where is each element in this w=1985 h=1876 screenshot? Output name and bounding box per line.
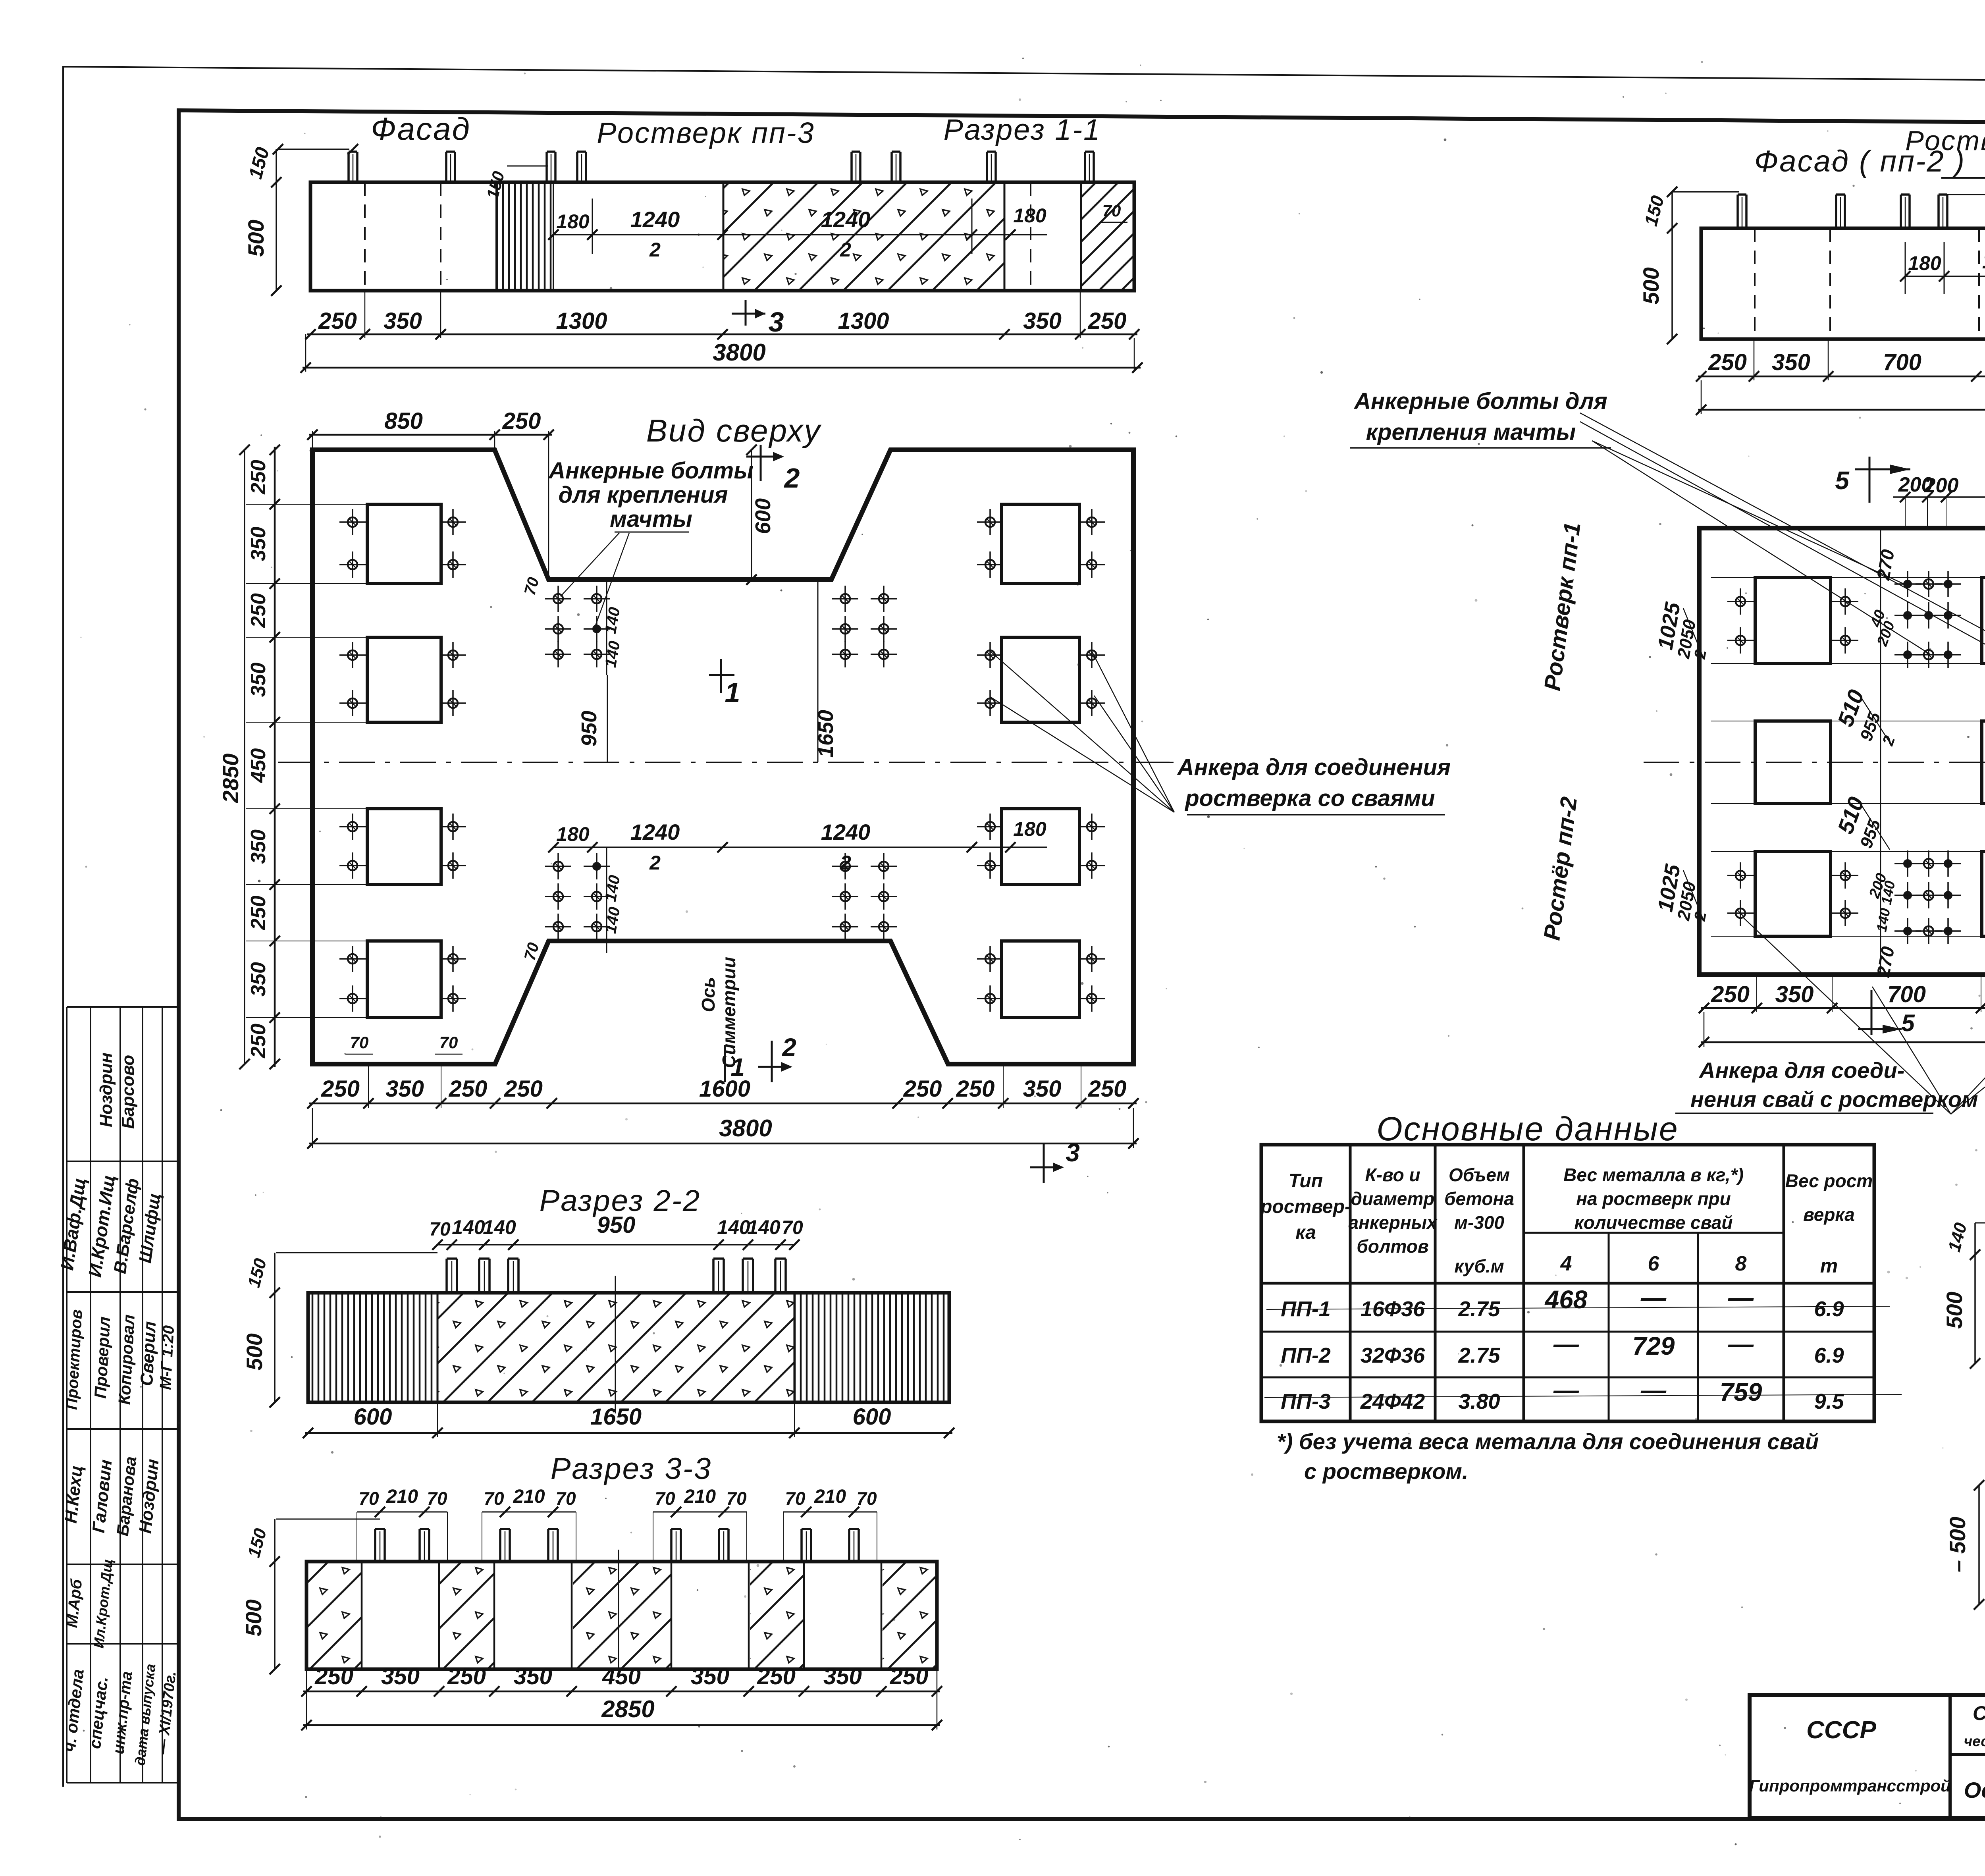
facade bottom dim chain — [307, 334, 1137, 335]
svg-text:Вес рост: Вес рост — [1785, 1170, 1873, 1191]
svg-text:140: 140 — [747, 1216, 781, 1238]
svg-text:М-Г 1:20: М-Г 1:20 — [157, 1325, 177, 1390]
svg-text:Анкера для соединения: Анкера для соединения — [1177, 754, 1451, 780]
svg-text:350: 350 — [1023, 1076, 1062, 1102]
svg-text:крепления мачты: крепления мачты — [1366, 419, 1576, 445]
svg-text:5: 5 — [1901, 1010, 1915, 1036]
svg-text:350: 350 — [247, 527, 270, 561]
beam 3-3 — [306, 1562, 937, 1669]
svg-text:250: 250 — [1708, 349, 1747, 375]
svg-text:мачты: мачты — [610, 506, 692, 532]
right facade bottom dim chain — [1698, 376, 1985, 378]
svg-text:250: 250 — [1711, 981, 1750, 1007]
svg-text:250: 250 — [757, 1664, 796, 1689]
svg-text:450: 450 — [247, 748, 270, 783]
bolts 3-3 — [374, 1529, 376, 1562]
svg-text:И.Ваф.Дщ: И.Ваф.Дщ — [56, 1176, 90, 1271]
svg-text:3: 3 — [769, 307, 784, 337]
svg-text:250: 250 — [504, 1076, 543, 1102]
svg-text:Анкера для соеди-: Анкера для соеди- — [1698, 1058, 1904, 1083]
svg-text:3: 3 — [1066, 1138, 1080, 1167]
svg-text:700: 700 — [1883, 349, 1921, 375]
svg-text:70: 70 — [856, 1488, 877, 1509]
svg-text:950: 950 — [597, 1212, 636, 1238]
svg-text:70: 70 — [782, 1217, 803, 1238]
svg-text:250: 250 — [502, 408, 541, 434]
svg-text:3800: 3800 — [713, 339, 765, 366]
left dims 3-3 — [276, 1519, 380, 1520]
svg-text:468: 468 — [1544, 1285, 1588, 1314]
svg-text:500: 500 — [241, 1599, 266, 1636]
svg-text:250: 250 — [890, 1664, 929, 1689]
svg-text:250: 250 — [247, 593, 270, 628]
svg-text:150: 150 — [244, 1256, 270, 1290]
left vertical dims 150/500 — [1671, 192, 1673, 339]
svg-text:1650: 1650 — [590, 1404, 642, 1430]
svg-text:верка: верка — [1803, 1204, 1855, 1225]
bolts around right-plan left squares — [1736, 597, 1745, 606]
svg-text:—: — — [1553, 1330, 1579, 1358]
svg-text:70: 70 — [726, 1488, 747, 1509]
anchor bolts right facade — [1736, 195, 1739, 228]
svg-text:1650: 1650 — [814, 710, 838, 758]
beam outline PP-3 facade — [310, 182, 1134, 291]
svg-text:500: 500 — [243, 220, 268, 256]
svg-text:700: 700 — [1887, 981, 1926, 1007]
svg-text:спецчас.: спецчас. — [85, 1675, 112, 1749]
right plan bottom dim chain — [1701, 1007, 1985, 1009]
piles (squares) left plan — [367, 504, 441, 584]
svg-text:500: 500 — [242, 1333, 267, 1370]
top dims 2-2 — [437, 1244, 794, 1246]
svg-text:Ростёр пп-2: Ростёр пп-2 — [1539, 795, 1582, 942]
svg-text:70: 70 — [555, 1488, 576, 1509]
svg-text:850: 850 — [384, 408, 423, 434]
top dim 850/250 — [309, 434, 552, 436]
title block frame — [1750, 1695, 1985, 1818]
svg-text:Анкерные болты: Анкерные болты — [548, 458, 753, 484]
svg-text:м-300: м-300 — [1454, 1212, 1505, 1233]
svg-text:250: 250 — [1088, 308, 1127, 334]
svg-text:3.80: 3.80 — [1458, 1390, 1500, 1413]
svg-text:Галовин: Галовин — [89, 1459, 116, 1534]
bottom marker 5 — [1871, 990, 1873, 1035]
table row lines — [1261, 1282, 1874, 1285]
svg-text:Свайные основания под метал: Свайные основания под металли- — [1973, 1702, 1985, 1724]
svg-text:500: 500 — [1638, 267, 1663, 304]
concrete hatch mid segment — [723, 184, 1004, 289]
pointer lines to pile bolts — [990, 651, 1174, 812]
svg-text:2: 2 — [1691, 910, 1709, 923]
svg-text:140: 140 — [602, 906, 624, 935]
facade inner dim line 180/1240 — [553, 234, 1047, 235]
total 3800 — [312, 1108, 313, 1148]
svg-text:Ноздрин: Ноздрин — [135, 1458, 162, 1534]
svg-text:Баранова: Баранова — [113, 1456, 140, 1537]
svg-text:250: 250 — [314, 1664, 353, 1689]
svg-text:Тип: Тип — [1289, 1170, 1323, 1192]
svg-text:950: 950 — [577, 711, 601, 746]
svg-text:ростверка со сваями: ростверка со сваями — [1184, 785, 1435, 811]
svg-text:Основные данные ростверков: Основные данные ростверков — [1964, 1778, 1985, 1803]
svg-text:350: 350 — [1775, 981, 1814, 1007]
svg-text:5: 5 — [1835, 466, 1850, 495]
dashed joints — [364, 182, 366, 291]
svg-text:Н.Кехц: Н.Кехц — [61, 1464, 87, 1524]
left dims 5-5 — [1975, 1222, 1985, 1224]
svg-text:роствер-: роствер- — [1260, 1196, 1351, 1217]
section mark 2 top — [760, 445, 762, 481]
svg-text:Барсово: Барсово — [118, 1055, 138, 1129]
center line 2-2 — [615, 1276, 616, 1413]
left strip row dividers — [67, 1006, 179, 1008]
svg-text:1600: 1600 — [699, 1076, 750, 1102]
svg-text:140: 140 — [452, 1216, 485, 1238]
svg-text:200: 200 — [1924, 474, 1959, 497]
svg-text:250: 250 — [247, 896, 270, 931]
svg-text:куб.м: куб.м — [1454, 1256, 1504, 1276]
svg-text:180: 180 — [556, 823, 590, 845]
svg-text:140: 140 — [1945, 1220, 1971, 1254]
svg-text:Разрез 1-1: Разрез 1-1 — [944, 113, 1101, 146]
svg-text:140: 140 — [602, 874, 624, 903]
svg-text:1: 1 — [725, 677, 740, 708]
svg-text:Фасад ( пп-2 ): Фасад ( пп-2 ) — [1754, 145, 1966, 178]
svg-text:Ростверк пп-1: Ростверк пп-1 — [1539, 521, 1585, 692]
svg-text:Основные данные: Основные данные — [1376, 1110, 1679, 1147]
left dims 2-2 — [276, 1252, 437, 1253]
svg-text:2: 2 — [1879, 734, 1898, 748]
svg-text:ПП-3: ПП-3 — [1281, 1390, 1331, 1413]
axis of symmetry — [278, 762, 1175, 763]
svg-text:1300: 1300 — [556, 308, 607, 334]
scan artefact strike lines — [1266, 1306, 1890, 1309]
svg-text:150: 150 — [244, 1526, 270, 1560]
svg-text:150: 150 — [245, 145, 274, 181]
bolts 2-2 — [445, 1259, 448, 1293]
svg-text:анкерных: анкерных — [1348, 1212, 1438, 1233]
svg-text:ка: ка — [1295, 1222, 1316, 1243]
bottom dims 3-3 — [303, 1691, 940, 1693]
svg-text:250: 250 — [956, 1076, 995, 1102]
svg-text:СССР: СССР — [1806, 1716, 1876, 1744]
svg-text:3800: 3800 — [719, 1115, 772, 1141]
svg-text:Ноздрин: Ноздрин — [96, 1053, 116, 1127]
left vertical dim 500 — [276, 149, 277, 291]
svg-text:210: 210 — [814, 1486, 846, 1507]
facade total 3800 — [305, 334, 306, 372]
svg-text:с ростверком.: с ростверком. — [1304, 1459, 1468, 1484]
svg-text:2: 2 — [1691, 648, 1709, 661]
svg-text:*) без учета веса металла: *) без учета веса металла для соединения… — [1277, 1429, 1819, 1454]
section mark 3 bottom — [1043, 1143, 1045, 1183]
svg-text:250: 250 — [449, 1076, 488, 1102]
svg-text:– 500: – 500 — [1945, 1517, 1970, 1572]
svg-text:250: 250 — [1088, 1076, 1127, 1102]
svg-text:180: 180 — [1013, 204, 1046, 227]
svg-text:бетона: бетона — [1444, 1188, 1514, 1209]
svg-text:ческие прожекторные мачты высо: ческие прожекторные мачты высотой 21 и 2… — [1964, 1733, 1985, 1749]
svg-text:2.75: 2.75 — [1458, 1297, 1500, 1321]
svg-text:6.9: 6.9 — [1814, 1297, 1844, 1321]
plan outline PP-1/PP-2 — [1699, 528, 1985, 975]
bottom dims 2-2 — [305, 1432, 952, 1434]
cluster dims 140/140 — [606, 580, 607, 675]
svg-text:70: 70 — [655, 1488, 675, 1509]
svg-text:250: 250 — [318, 308, 357, 334]
150 bracket mid — [1946, 194, 1985, 195]
svg-text:350: 350 — [691, 1664, 729, 1689]
svg-text:70: 70 — [1102, 201, 1121, 220]
svg-text:1240: 1240 — [821, 207, 871, 232]
svg-text:—: — — [1553, 1376, 1579, 1404]
scan noise speckles — [1665, 93, 1667, 94]
svg-text:1240: 1240 — [630, 819, 680, 844]
right end hatch — [1081, 184, 1133, 289]
svg-text:2: 2 — [649, 852, 661, 874]
svg-text:2850: 2850 — [218, 754, 243, 804]
mid dim line 180/1240 in plan — [553, 846, 1047, 848]
svg-text:350: 350 — [1023, 308, 1062, 334]
svg-text:250: 250 — [247, 1024, 270, 1059]
svg-text:350: 350 — [247, 663, 270, 697]
svg-text:450: 450 — [602, 1664, 641, 1689]
svg-text:2: 2 — [649, 239, 661, 261]
svg-text:1240: 1240 — [821, 819, 871, 844]
svg-text:759: 759 — [1720, 1378, 1762, 1406]
svg-text:К-во и: К-во и — [1365, 1165, 1420, 1185]
svg-text:350: 350 — [247, 829, 270, 864]
vertical hatch band (pile cut) — [496, 184, 553, 289]
total 3500 bottom — [1701, 1041, 1985, 1043]
svg-text:2: 2 — [784, 463, 800, 494]
svg-text:Объем: Объем — [1449, 1165, 1510, 1185]
svg-text:Копировал: Копировал — [115, 1314, 138, 1405]
svg-text:500: 500 — [1942, 1292, 1967, 1328]
svg-text:140: 140 — [602, 640, 624, 669]
bolt top level bracket + 150 — [278, 148, 349, 150]
svg-text:600: 600 — [751, 498, 775, 534]
svg-text:210: 210 — [386, 1486, 418, 1507]
svg-text:на ростверк при: на ростверк при — [1576, 1188, 1731, 1209]
table frame — [1261, 1145, 1874, 1421]
svg-text:180: 180 — [556, 210, 590, 233]
top dim line 200/850 — [1893, 496, 1985, 498]
svg-text:2850: 2850 — [601, 1696, 654, 1722]
svg-text:количестве свай: количестве свай — [1574, 1212, 1733, 1233]
svg-text:180: 180 — [1908, 252, 1941, 274]
svg-text:140: 140 — [717, 1216, 750, 1238]
150 bracket left — [1672, 191, 1739, 193]
svg-text:Проверил: Проверил — [91, 1316, 114, 1399]
svg-text:140: 140 — [602, 606, 624, 635]
svg-text:70: 70 — [785, 1488, 806, 1509]
svg-text:Ось: Ось — [698, 977, 719, 1012]
svg-text:1240: 1240 — [630, 207, 680, 232]
svg-text:70: 70 — [439, 1033, 458, 1052]
svg-text:инж.пр-та: инж.пр-та — [110, 1670, 136, 1755]
svg-text:140: 140 — [483, 1216, 516, 1238]
svg-text:32Ф36: 32Ф36 — [1361, 1344, 1425, 1367]
svg-text:—: — — [1640, 1376, 1667, 1404]
table column lines — [1349, 1145, 1352, 1421]
svg-text:для крепления: для крепления — [559, 482, 728, 508]
svg-text:24Ф42: 24Ф42 — [1360, 1390, 1425, 1413]
svg-text:70: 70 — [484, 1488, 504, 1509]
svg-text:2: 2 — [782, 1033, 796, 1062]
svg-text:4: 4 — [1560, 1252, 1572, 1275]
svg-text:Разрез 3-3: Разрез 3-3 — [551, 1452, 712, 1486]
svg-text:Ил.Крот.Дщ: Ил.Крот.Дщ — [90, 1558, 116, 1649]
internal vertical dim lines — [1880, 528, 1881, 975]
extension verticals from top dim — [1905, 497, 1906, 528]
plan bottom dim chain — [309, 1103, 1137, 1105]
svg-text:70: 70 — [350, 1033, 369, 1052]
svg-text:диаметр: диаметр — [1351, 1188, 1435, 1209]
svg-text:729: 729 — [1632, 1332, 1675, 1360]
svg-text:Фасад: Фасад — [371, 111, 471, 147]
svg-text:1300: 1300 — [838, 308, 889, 334]
top dims 3-3 — [357, 1512, 447, 1513]
svg-text:Вес металла в кг,*): Вес металла в кг,*) — [1563, 1165, 1744, 1185]
svg-text:600: 600 — [853, 1404, 891, 1430]
plan outline PP-3 — [312, 450, 1133, 1064]
svg-text:210: 210 — [513, 1486, 545, 1507]
long pointer lines — [1580, 413, 1985, 652]
3x3 clusters right plan — [1903, 580, 1912, 588]
anchor bolts on facade PP-3 — [347, 152, 350, 182]
svg-text:Шлифщ: Шлифщ — [135, 1192, 164, 1264]
svg-text:Сверил: Сверил — [137, 1321, 160, 1386]
svg-text:2.75: 2.75 — [1458, 1344, 1500, 1367]
svg-text:350: 350 — [384, 308, 422, 334]
center anchor clusters left plan — [553, 594, 563, 603]
600 notch dim — [751, 450, 752, 580]
section mark 3 top — [745, 300, 747, 326]
left dim 500 6-6 — [1978, 1485, 1980, 1604]
svg-text:70: 70 — [358, 1488, 379, 1509]
beam outline PP-1/PP-2 facade — [1701, 228, 1985, 339]
svg-text:т: т — [1820, 1255, 1838, 1277]
svg-text:8: 8 — [1735, 1252, 1747, 1275]
section mark 5 top — [1869, 457, 1871, 503]
svg-text:250: 250 — [321, 1076, 360, 1102]
bottom markers 1 and 2 — [724, 1045, 726, 1082]
svg-text:70: 70 — [521, 575, 542, 597]
total 3500 — [1701, 380, 1702, 414]
svg-text:ПП-2: ПП-2 — [1281, 1344, 1331, 1367]
svg-text:70: 70 — [427, 1488, 447, 1509]
pointer lines — [1744, 918, 1951, 1114]
svg-text:250: 250 — [903, 1076, 942, 1102]
center line 3-3 — [618, 1550, 619, 1678]
svg-text:Вид сверху: Вид сверху — [646, 413, 822, 448]
axis of symmetry right plan — [1644, 762, 1985, 763]
dashed joints — [1754, 228, 1756, 339]
svg-text:Гипропромтрансстрой: Гипропромтрансстрой — [1749, 1776, 1951, 1795]
svg-text:— XI/1970г.: — XI/1970г. — [154, 1670, 179, 1755]
svg-text:350: 350 — [381, 1664, 420, 1689]
svg-text:Ростверк пп-3: Ростверк пп-3 — [597, 116, 815, 149]
svg-text:2: 2 — [840, 852, 851, 874]
svg-text:350: 350 — [514, 1664, 552, 1689]
row extension lines across right plan — [1711, 577, 1985, 578]
pile bolts left plan — [348, 517, 357, 527]
left vertical chain 2850 — [274, 447, 276, 1067]
svg-text:болтов: болтов — [1357, 1236, 1428, 1257]
svg-text:600: 600 — [354, 1404, 392, 1430]
svg-text:6: 6 — [1648, 1252, 1660, 1275]
beam 2-2 — [308, 1293, 949, 1402]
svg-text:Симметрии: Симметрии — [719, 957, 739, 1068]
svg-text:2: 2 — [840, 239, 851, 261]
svg-text:270: 270 — [1873, 548, 1898, 582]
svg-text:180: 180 — [1013, 818, 1046, 840]
svg-text:350: 350 — [1772, 349, 1810, 375]
svg-text:350: 350 — [247, 962, 270, 997]
svg-text:9.5: 9.5 — [1814, 1390, 1844, 1413]
svg-text:350: 350 — [385, 1076, 424, 1102]
section mark 1 center — [709, 674, 734, 676]
svg-text:Анкерные болты для: Анкерные болты для — [1353, 388, 1607, 414]
svg-text:ч. отдела: ч. отдела — [60, 1668, 87, 1753]
svg-text:70: 70 — [429, 1219, 451, 1240]
svg-text:250: 250 — [447, 1664, 486, 1689]
left strip columns — [66, 1007, 67, 1783]
svg-text:6.9: 6.9 — [1814, 1344, 1844, 1367]
svg-text:350: 350 — [823, 1664, 862, 1689]
svg-text:1240: 1240 — [1982, 248, 1985, 273]
svg-text:250: 250 — [247, 460, 270, 495]
950 / 1650 vertical dims — [607, 675, 608, 762]
inner dim line 180/1240 right facade — [1905, 276, 1985, 277]
svg-text:—: — — [1728, 1330, 1754, 1358]
svg-text:210: 210 — [684, 1486, 716, 1507]
piles right plan: squares and middle rects — [1755, 578, 1831, 663]
svg-text:150: 150 — [1640, 193, 1668, 228]
svg-text:—: — — [1728, 1283, 1754, 1312]
